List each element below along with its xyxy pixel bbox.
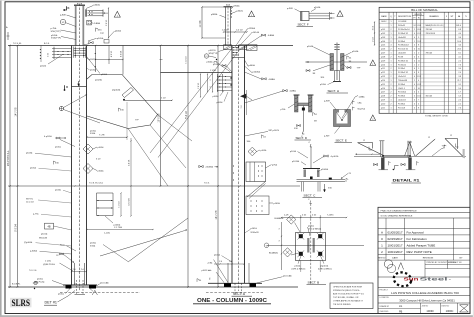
svg-text:CONTRACT NO: CONTRACT NO xyxy=(449,261,463,264)
svg-text:p-909: p-909 xyxy=(287,8,293,10)
svg-text:1 1/2&: 1 1/2& xyxy=(210,70,216,72)
svg-text:PL3/8x6: PL3/8x6 xyxy=(398,96,405,98)
svg-text:TYP: TYP xyxy=(100,33,105,35)
svg-text:7/8 DIA: 7/8 DIA xyxy=(426,28,433,31)
svg-text:Added Parapet TUBE: Added Parapet TUBE xyxy=(407,243,436,247)
svg-text:p101&: p101& xyxy=(214,255,221,257)
svg-text:CHECKED: CHECKED xyxy=(380,311,389,313)
svg-text:COLUMN: COLUMN xyxy=(398,21,407,23)
svg-text:p103&: p103& xyxy=(213,96,220,98)
svg-text:p-909: p-909 xyxy=(324,101,330,103)
svg-text:3000 Campus Hill Drive,Livermo: 3000 Campus Hill Drive,Livermore,Ca 9455… xyxy=(399,298,455,302)
svg-text:12: 12 xyxy=(363,140,365,142)
svg-text:1: 1 xyxy=(390,80,391,82)
svg-text:4.4: 4.4 xyxy=(458,33,461,35)
svg-text:6: 6 xyxy=(418,56,419,58)
svg-text:p101 dbb: p101 dbb xyxy=(100,283,110,285)
svg-text:+1/8&: +1/8& xyxy=(207,263,213,265)
svg-text:2.5: 2.5 xyxy=(458,100,461,102)
svg-text:L4x4x1/4: L4x4x1/4 xyxy=(398,100,406,102)
svg-text:For Approval: For Approval xyxy=(407,231,424,235)
svg-text:PB: PB xyxy=(399,310,403,313)
svg-text:2-BB&: 2-BB& xyxy=(94,23,101,25)
svg-text:3: 3 xyxy=(210,79,212,80)
svg-text:p107: p107 xyxy=(381,53,385,55)
svg-text:11'-3/4: 11'-3/4 xyxy=(200,20,202,28)
svg-text:7.6: 7.6 xyxy=(458,107,461,109)
svg-text:4 1/2: 4 1/2 xyxy=(312,215,316,217)
svg-text:A: A xyxy=(381,231,383,235)
svg-text:p120: p120 xyxy=(381,103,385,105)
svg-text:3/8: 3/8 xyxy=(349,61,352,63)
svg-text:10.6: 10.6 xyxy=(457,41,461,43)
svg-text:STRENGTH (FIELD TS BOL-: STRENGTH (FIELD TS BOL- xyxy=(333,290,361,292)
svg-text:2: 2 xyxy=(390,76,391,78)
svg-text:SECT. B: SECT. B xyxy=(308,280,320,284)
svg-text:5: 5 xyxy=(418,68,419,70)
svg-text:10'-0 5/8: 10'-0 5/8 xyxy=(128,198,130,205)
svg-text:0: 0 xyxy=(414,84,415,86)
svg-text:T.O.C. EL: T.O.C. EL xyxy=(29,270,37,272)
svg-text:p105&: p105& xyxy=(320,84,326,86)
svg-text:2.4: 2.4 xyxy=(458,72,461,74)
svg-text:Sun: Sun xyxy=(404,277,419,283)
svg-text:T.O.S. EL: T.O.S. EL xyxy=(13,43,22,45)
svg-text:7: 7 xyxy=(418,100,419,102)
svg-text:0: 0 xyxy=(414,92,415,94)
svg-text:p121: p121 xyxy=(381,107,385,109)
svg-text:3.1: 3.1 xyxy=(458,84,461,86)
svg-text:BL&BB2&: BL&BB2& xyxy=(275,218,285,220)
svg-text:(CHK & WELD): (CHK & WELD) xyxy=(292,268,306,270)
svg-text:3/16(TYP): 3/16(TYP) xyxy=(209,53,219,55)
svg-text:1: 1 xyxy=(390,33,391,35)
svg-text:1: 1 xyxy=(390,72,391,74)
svg-text:W10x33: W10x33 xyxy=(398,25,405,27)
svg-text:2 1/2: 2 1/2 xyxy=(47,53,49,57)
svg-text:TYP: TYP xyxy=(357,68,362,70)
svg-text:W10x33: W10x33 xyxy=(251,232,260,234)
svg-text:L6x4x3/8: L6x4x3/8 xyxy=(398,53,406,55)
svg-text:TL: TL xyxy=(465,16,467,18)
svg-text:T.O.S.: T.O.S. xyxy=(204,182,210,184)
svg-text:0: 0 xyxy=(414,68,415,70)
svg-text:p116: p116 xyxy=(381,88,385,90)
svg-text:2: 2 xyxy=(390,29,391,31)
svg-text:p-606&: p-606& xyxy=(30,251,38,253)
svg-text:p105&: p105& xyxy=(30,168,37,170)
svg-text:p101 dbb: p101 dbb xyxy=(283,276,293,278)
svg-text:PL3/8x5: PL3/8x5 xyxy=(398,68,405,70)
svg-text:7-13/16: 7-13/16 xyxy=(327,215,333,217)
svg-text:3/16(TYP): 3/16(TYP) xyxy=(51,38,61,40)
svg-text:(TS6 & WELD): (TS6 & WELD) xyxy=(308,228,322,230)
svg-text:SECT. E: SECT. E xyxy=(336,138,347,142)
svg-text:& p105&: & p105& xyxy=(44,136,52,138)
svg-text:4-BB&: 4-BB& xyxy=(290,91,297,93)
svg-text:1/2: 1/2 xyxy=(62,22,65,24)
svg-text:B.O.S.: B.O.S. xyxy=(44,43,50,45)
svg-text:10030: 10030 xyxy=(426,309,434,313)
svg-text:p-75&: p-75& xyxy=(51,28,57,30)
svg-text:3.6: 3.6 xyxy=(458,37,461,39)
svg-text:1/4: 1/4 xyxy=(314,114,317,116)
svg-text:REV NO: REV NO xyxy=(378,257,385,259)
svg-text:p202&: p202& xyxy=(40,66,47,68)
svg-text:LENGTH: LENGTH xyxy=(414,14,422,16)
svg-text:ONE - COLUMN - 1009C: ONE - COLUMN - 1009C xyxy=(197,298,268,304)
svg-text:p1014&: p1014& xyxy=(252,32,260,34)
svg-text:1.7: 1.7 xyxy=(458,92,461,94)
svg-text:7'-7/8: 7'-7/8 xyxy=(99,134,105,136)
svg-text:p104&: p104& xyxy=(352,51,359,53)
svg-text:10'-0 5/8: 10'-0 5/8 xyxy=(158,113,160,123)
svg-text:10/01/2017: 10/01/2017 xyxy=(387,243,402,247)
svg-text:24-BB&: 24-BB& xyxy=(206,167,214,169)
svg-text:PL3/4x12: PL3/4x12 xyxy=(398,64,406,66)
svg-text:p105: p105 xyxy=(381,45,385,47)
svg-text:C8x11.5: C8x11.5 xyxy=(398,88,405,90)
svg-text:p118: p118 xyxy=(381,96,385,98)
svg-text:p109: p109 xyxy=(381,60,385,62)
svg-text:LOCATION: LOCATION xyxy=(380,296,390,299)
svg-text:3/16&: 3/16& xyxy=(90,133,96,135)
svg-text:p75&: p75& xyxy=(272,164,278,166)
svg-text:PL3/4x10x1-0: PL3/4x10x1-0 xyxy=(398,29,410,31)
svg-text:1: 1 xyxy=(390,37,391,39)
svg-text:1: 1 xyxy=(390,107,391,109)
svg-text:3/8: 3/8 xyxy=(314,121,317,123)
svg-text:3'-4 1/8: 3'-4 1/8 xyxy=(128,160,130,166)
svg-text:PL3/8x3 1/2: PL3/8x3 1/2 xyxy=(398,72,408,74)
svg-text:2: 2 xyxy=(414,80,415,82)
svg-text:D: D xyxy=(66,86,68,89)
svg-text:W.P. EL: W.P. EL xyxy=(26,199,34,201)
svg-text:0: 0 xyxy=(414,45,415,47)
svg-text:p1013 dbb: p1013 dbb xyxy=(202,270,213,272)
svg-text:9'-3 3/4: 9'-3 3/4 xyxy=(16,223,18,231)
svg-text:p106: p106 xyxy=(381,49,385,51)
svg-text:2 1/2: 2 1/2 xyxy=(417,41,421,43)
svg-text:1'-0: 1'-0 xyxy=(241,106,243,109)
svg-text:0: 0 xyxy=(414,72,415,74)
svg-text:For Fabrication: For Fabrication xyxy=(407,237,428,241)
svg-text:2.2: 2.2 xyxy=(458,60,461,62)
svg-text:W-p75&: W-p75& xyxy=(358,109,366,111)
svg-text:GOOD DRAWING REFERENCE: GOOD DRAWING REFERENCE xyxy=(381,215,413,218)
svg-text:1: 1 xyxy=(414,53,415,55)
svg-text:Riser: Riser xyxy=(60,245,65,247)
svg-text:OTHER ASPECTS NOTABLE IT: OTHER ASPECTS NOTABLE IT xyxy=(333,300,364,303)
svg-text:1/2: 1/2 xyxy=(56,255,59,257)
svg-text:p1296&: p1296& xyxy=(248,28,256,30)
svg-text:12'-4 1/2: 12'-4 1/2 xyxy=(26,202,35,204)
svg-text:p400&: p400& xyxy=(249,65,256,67)
svg-text:1'-0 1/2: 1'-0 1/2 xyxy=(118,201,120,207)
svg-text:L3x3x1/4: L3x3x1/4 xyxy=(398,76,406,78)
svg-text:4-BB&: 4-BB& xyxy=(269,79,276,81)
svg-text:2: 2 xyxy=(414,29,415,31)
svg-text:p103: p103 xyxy=(381,37,385,39)
svg-text:12: 12 xyxy=(428,137,430,139)
svg-text:PL3/8x4x0-8: PL3/8x4x0-8 xyxy=(398,45,409,47)
svg-text:1/2: 1/2 xyxy=(205,56,207,58)
svg-text:p75&: p75& xyxy=(281,109,286,111)
svg-text:p105&: p105& xyxy=(98,147,105,149)
svg-text:(2)p106&: (2)p106& xyxy=(24,242,33,244)
svg-text:p115: p115 xyxy=(381,84,385,86)
svg-text:24: 24 xyxy=(413,25,415,27)
svg-text:4.1: 4.1 xyxy=(458,56,461,58)
svg-text:p101&: p101& xyxy=(55,147,61,149)
svg-text:1 1/2&: 1 1/2& xyxy=(45,261,51,263)
svg-text:1'-10 1/2: 1'-10 1/2 xyxy=(186,56,188,63)
svg-text:21.7: 21.7 xyxy=(457,80,461,82)
svg-text:6 1/2: 6 1/2 xyxy=(417,33,421,35)
svg-text:4-BB&: 4-BB& xyxy=(268,35,275,37)
svg-text:p1006&: p1006& xyxy=(253,72,261,74)
svg-text:3/16: 3/16 xyxy=(120,110,124,112)
svg-text:p402&: p402& xyxy=(237,10,244,12)
svg-text:DATE: DATE xyxy=(392,257,398,260)
svg-text:PL1/2x8: PL1/2x8 xyxy=(398,107,405,109)
svg-text:10: 10 xyxy=(418,49,420,51)
svg-text:(2)p101&: (2)p101& xyxy=(320,265,329,267)
svg-text:1'-0 1/2: 1'-0 1/2 xyxy=(236,29,244,31)
svg-text:OPEN HOLES ARE FOR HIGH: OPEN HOLES ARE FOR HIGH xyxy=(333,286,362,289)
svg-text:p103&: p103& xyxy=(274,203,281,205)
svg-text:p400&: p400& xyxy=(115,31,122,33)
svg-text:4: 4 xyxy=(418,92,419,94)
svg-text:8'-0 5/8: 8'-0 5/8 xyxy=(120,51,122,57)
svg-text:BILL OF MATERIAL: BILL OF MATERIAL xyxy=(411,8,438,12)
svg-text:p111: p111 xyxy=(381,68,385,70)
svg-text:p-808: p-808 xyxy=(60,14,66,16)
svg-text:PL5/16x4: PL5/16x4 xyxy=(398,92,406,94)
svg-text:0 5/8: 0 5/8 xyxy=(417,25,421,27)
svg-text:p101&: p101& xyxy=(58,294,64,296)
svg-text:p105&: p105& xyxy=(97,38,104,40)
svg-text:2'-0 1/2: 2'-0 1/2 xyxy=(106,20,108,26)
svg-text:1'-6 1/2: 1'-6 1/2 xyxy=(198,83,200,89)
svg-text:p101&: p101& xyxy=(37,279,43,281)
svg-text:WP p107&: WP p107& xyxy=(269,130,280,132)
svg-text:02/15/2017: 02/15/2017 xyxy=(387,237,402,241)
svg-text:8: 8 xyxy=(418,45,419,47)
svg-text:0: 0 xyxy=(414,107,415,109)
svg-text:1'-2 7/8&: 1'-2 7/8& xyxy=(114,227,123,229)
svg-text:p1009&: p1009& xyxy=(321,169,329,171)
svg-text:9: 9 xyxy=(418,37,419,39)
svg-text:p101&: p101& xyxy=(295,265,301,267)
svg-text:3/16: 3/16 xyxy=(294,128,298,130)
svg-text:1: 1 xyxy=(390,88,391,90)
svg-text:1'-0: 1'-0 xyxy=(73,269,76,271)
svg-text:p101&: p101& xyxy=(251,228,258,230)
svg-text:4: 4 xyxy=(418,80,419,82)
svg-text:0: 0 xyxy=(414,37,415,39)
svg-text:5'-4 1/2: 5'-4 1/2 xyxy=(186,110,188,118)
svg-text:1-1/2&: 1-1/2& xyxy=(104,233,111,235)
svg-text:3: 3 xyxy=(279,240,281,241)
svg-text:p108: p108 xyxy=(381,56,385,58)
svg-text:p104&: p104& xyxy=(207,62,214,64)
svg-text:p105&: p105& xyxy=(90,131,96,133)
svg-text:9.4: 9.4 xyxy=(458,88,461,90)
svg-text:p103&: p103& xyxy=(55,190,61,192)
svg-text:p105&: p105& xyxy=(51,35,58,37)
svg-text:8 1/2: 8 1/2 xyxy=(417,76,421,78)
svg-text:8: 8 xyxy=(418,72,419,74)
svg-text:5 1/2: 5 1/2 xyxy=(417,84,421,86)
svg-text:SECT. C: SECT. C xyxy=(304,193,317,197)
svg-text:1009C: 1009C xyxy=(381,21,387,23)
svg-text:SECT. H: SECT. H xyxy=(328,89,340,93)
svg-text:8: 8 xyxy=(418,107,419,109)
svg-text:(CHK & WELD): (CHK & WELD) xyxy=(318,268,332,270)
svg-text:SLRS: SLRS xyxy=(12,298,31,308)
svg-text:1: 1 xyxy=(390,25,391,27)
svg-text:TIE 3/4 IS ISSUED.: TIE 3/4 IS ISSUED. xyxy=(333,304,352,306)
svg-text:L4x4x3/8: L4x4x3/8 xyxy=(398,37,406,39)
svg-text:PRACTICE DRAWING REFERENCE: PRACTICE DRAWING REFERENCE xyxy=(381,209,418,212)
svg-text:p103&: p103& xyxy=(26,153,33,155)
svg-text:2: 2 xyxy=(390,84,391,86)
svg-text:MAIN(PLUS OF 0.5#): MAIN(PLUS OF 0.5#) xyxy=(426,24,445,27)
svg-text:p113: p113 xyxy=(381,76,385,78)
svg-text:SECT. D: SECT. D xyxy=(296,136,308,140)
svg-text:1: 1 xyxy=(390,100,391,102)
svg-text:REVISION: REVISION xyxy=(423,258,434,260)
svg-text:10: 10 xyxy=(418,88,420,90)
svg-text:1/4: 1/4 xyxy=(349,58,352,60)
svg-text:PL3/8x4: PL3/8x4 xyxy=(398,84,405,86)
svg-text:1: 1 xyxy=(414,88,415,90)
svg-text:K: K xyxy=(68,6,70,10)
svg-text:24'-0 5/8 O.A.L.: 24'-0 5/8 O.A.L. xyxy=(7,150,10,166)
svg-text:3/16: 3/16 xyxy=(328,188,332,190)
svg-text:1'-0: 1'-0 xyxy=(81,269,84,271)
svg-text:p105&: p105& xyxy=(90,70,96,72)
svg-text:T.O.S. EL 14'-0: T.O.S. EL 14'-0 xyxy=(89,182,104,184)
svg-text:p-77&: p-77& xyxy=(33,214,39,216)
svg-text:LAS POSITAS COLLEGE ACADEMIC B: LAS POSITAS COLLEGE ACADEMIC BLDG 700 xyxy=(391,291,459,295)
svg-text:0: 0 xyxy=(414,100,415,102)
svg-text:1/4: 1/4 xyxy=(199,280,202,282)
svg-text:1: 1 xyxy=(390,64,391,66)
svg-text:Steel: Steel xyxy=(420,277,448,283)
svg-text:p117: p117 xyxy=(381,92,385,94)
svg-text:p2023&: p2023& xyxy=(95,80,103,82)
svg-text:(4)3/4 P101&: (4)3/4 P101& xyxy=(43,264,55,266)
svg-text:DET #1: DET #1 xyxy=(45,301,58,305)
svg-text:MARK: MARK xyxy=(381,15,387,18)
svg-text:3/8: 3/8 xyxy=(313,73,316,75)
svg-text:p104&: p104& xyxy=(314,7,321,9)
svg-text:6.8: 6.8 xyxy=(458,29,461,31)
svg-text:TOTAL WEIGHT: 3759#: TOTAL WEIGHT: 3759# xyxy=(425,115,449,118)
svg-text:4: 4 xyxy=(418,103,419,105)
svg-text:PL3/8x4: PL3/8x4 xyxy=(398,103,405,105)
svg-text:3/16(TYP): 3/16(TYP) xyxy=(51,31,61,33)
svg-text:1009C: 1009C xyxy=(446,309,454,313)
svg-text:DESCRIPTION: DESCRIPTION xyxy=(398,16,412,18)
svg-text:1/4: 1/4 xyxy=(263,136,266,138)
svg-text:1: 1 xyxy=(414,41,415,43)
svg-text:p101&: p101& xyxy=(41,234,48,236)
svg-text:1'-0: 1'-0 xyxy=(219,261,222,263)
svg-text:3.8: 3.8 xyxy=(458,76,461,78)
svg-text:0: 0 xyxy=(414,56,415,58)
svg-text:SECT. A: SECT. A xyxy=(233,292,246,296)
svg-text:3/16: 3/16 xyxy=(321,77,325,79)
svg-text:12: 12 xyxy=(450,135,452,137)
svg-text:3.4: 3.4 xyxy=(458,45,461,47)
svg-text:DRAWN BY: DRAWN BY xyxy=(380,305,390,308)
svg-text:FT: FT xyxy=(413,18,415,20)
svg-text:4: 4 xyxy=(390,45,391,47)
svg-text:4B: 4B xyxy=(47,226,50,229)
svg-text:2.1: 2.1 xyxy=(458,103,461,105)
svg-text:p2022&: p2022& xyxy=(89,59,97,61)
svg-text:0: 0 xyxy=(414,60,415,62)
svg-text:841.0: 841.0 xyxy=(456,25,461,27)
svg-text:14'-7 7/8: 14'-7 7/8 xyxy=(16,107,18,117)
svg-text:0: 0 xyxy=(418,64,419,66)
svg-text:PL3/8: PL3/8 xyxy=(398,56,403,58)
svg-text:1-BB&: 1-BB& xyxy=(359,97,366,99)
svg-text:7.3: 7.3 xyxy=(458,64,461,66)
svg-text:DWG NO: DWG NO xyxy=(442,305,450,307)
svg-text:TS6x6x3/8: TS6x6x3/8 xyxy=(398,80,407,82)
svg-text:PL3/8x6 1/2: PL3/8x6 1/2 xyxy=(398,33,408,35)
svg-text:1'-0 1/2: 1'-0 1/2 xyxy=(222,29,230,31)
svg-text:TGT BOLNB , IN WALL OR: TGT BOLNB , IN WALL OR xyxy=(333,296,359,299)
svg-text:B.O.B.PL: B.O.B.PL xyxy=(12,284,21,286)
svg-text:p101: p101 xyxy=(381,29,385,31)
svg-text:01/05/2017: 01/05/2017 xyxy=(387,231,402,235)
svg-text:3/16&: 3/16& xyxy=(90,246,96,248)
svg-text:p102: p102 xyxy=(381,33,385,35)
svg-text:W10x33: W10x33 xyxy=(39,237,48,239)
svg-text:8.1: 8.1 xyxy=(458,53,461,55)
svg-text:1: 1 xyxy=(390,53,391,55)
svg-text:7/8 DIA: 7/8 DIA xyxy=(426,52,433,55)
svg-text:p101&: p101& xyxy=(308,225,314,227)
svg-text:7/8 HOLES: 7/8 HOLES xyxy=(426,33,436,35)
svg-text:0: 0 xyxy=(414,76,415,78)
svg-text:p104: p104 xyxy=(381,41,385,43)
svg-text:p909&: p909& xyxy=(211,14,218,16)
svg-text:REV. PAINT NOTE: REV. PAINT NOTE xyxy=(407,250,432,254)
svg-text:p104&: p104& xyxy=(307,46,314,48)
svg-text:(2)p104&: (2)p104& xyxy=(112,90,121,92)
svg-text:p114: p114 xyxy=(381,80,385,82)
svg-text:14'-7 7/8: 14'-7 7/8 xyxy=(216,210,218,220)
svg-text:2: 2 xyxy=(390,96,391,98)
svg-text:2: 2 xyxy=(390,49,391,51)
svg-text:PL1/2x6 1/2: PL1/2x6 1/2 xyxy=(398,49,408,51)
svg-text:2: 2 xyxy=(390,56,391,58)
svg-text:23.5: 23.5 xyxy=(457,49,461,51)
svg-text:JOB NO: JOB NO xyxy=(422,305,429,307)
svg-text:PL3/8x3 1/2: PL3/8x3 1/2 xyxy=(398,60,408,62)
svg-text:C8&: C8& xyxy=(358,103,363,105)
svg-text:3/4 DIA: 3/4 DIA xyxy=(426,95,433,98)
svg-text:REMARKS: REMARKS xyxy=(429,15,439,18)
svg-text:4-p101&: 4-p101& xyxy=(331,156,339,158)
svg-text:1: 1 xyxy=(390,60,391,62)
